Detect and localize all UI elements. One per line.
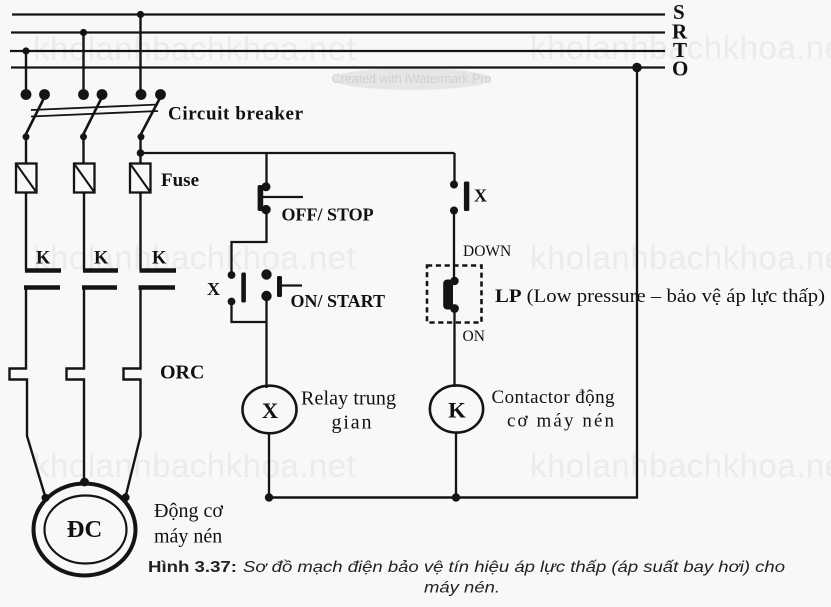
contactor contact K2 <box>82 271 118 288</box>
svg-text:máy nén.: máy nén. <box>424 580 500 597</box>
svg-text:K: K <box>94 249 109 269</box>
wire parallel branch bottom <box>232 302 267 323</box>
contactor contact K3 <box>139 271 177 288</box>
bus S <box>12 13 665 15</box>
relay coil X <box>243 386 297 434</box>
contact X2 (seal-in, left branch) <box>228 271 246 305</box>
label Circuit breaker <box>168 104 304 125</box>
node neutral tap on O <box>632 63 642 73</box>
circuit breaker CB pole2 <box>78 89 107 140</box>
node control feed tap <box>137 149 145 157</box>
motor DC inner circle <box>45 496 127 564</box>
wire neutral drop <box>636 68 638 498</box>
svg-text:ĐC: ĐC <box>67 516 102 543</box>
pressure switch LP dashed box <box>427 266 482 323</box>
label Fuse <box>161 170 199 191</box>
label DOWN <box>463 243 511 260</box>
wire ON to relay X <box>265 296 267 388</box>
node bottom rail K <box>452 493 460 501</box>
label K1 <box>36 249 51 269</box>
label X2 <box>207 279 220 299</box>
wire fuse3 to K3 <box>139 193 141 271</box>
label DC <box>67 516 102 543</box>
label ON <box>463 328 485 345</box>
wire relay X to bottom rail <box>268 433 270 498</box>
pushbutton ON/START <box>261 269 302 301</box>
wire fuse1 to K1 <box>25 193 27 271</box>
svg-text:Sơ đồ mạch điện bảo vệ tín hiệ: Sơ đồ mạch điện bảo vệ tín hiệu áp lực t… <box>243 559 785 576</box>
watermark row2 right <box>530 239 831 276</box>
svg-text:ORC: ORC <box>160 362 204 384</box>
node tap phase1 on T <box>22 47 29 54</box>
node bottom rail X <box>265 493 273 501</box>
svg-text:DOWN: DOWN <box>463 243 511 260</box>
wire OFF branch drop <box>265 153 267 187</box>
svg-text:Fuse: Fuse <box>161 170 199 191</box>
label Relay trung gian <box>301 388 396 434</box>
fuse F3 <box>130 164 151 193</box>
svg-text:Động cơ: Động cơ <box>154 500 223 522</box>
bus O <box>11 66 665 68</box>
svg-text:K: K <box>448 398 466 423</box>
svg-text:Relay trung: Relay trung <box>301 388 396 410</box>
label LP (Low pressure) <box>495 286 825 307</box>
svg-text:máy nén: máy nén <box>154 526 222 548</box>
svg-text:LP (Low pressure – bảo vệ áp l: LP (Low pressure – bảo vệ áp lực thấp) <box>495 286 825 307</box>
svg-text:O: O <box>672 57 688 81</box>
svg-text:ON/ START: ON/ START <box>291 291 386 311</box>
wire pole3 to fuse F3 <box>139 137 141 164</box>
wire bottom rail <box>269 496 638 499</box>
contact X1 (upper right) <box>450 181 469 215</box>
label X1 <box>474 186 487 206</box>
wire contactor K to bottom rail <box>455 433 457 498</box>
label S <box>673 0 685 24</box>
label R <box>672 20 688 44</box>
svg-text:kholanhbachkhoa.net: kholanhbachkhoa.net <box>33 30 356 67</box>
label Contactor dong co may nen <box>492 387 616 432</box>
svg-text:kholanhbachkhoa.net: kholanhbachkhoa.net <box>530 239 831 276</box>
watermark row3 left <box>33 447 356 484</box>
node tap phase2 on R <box>80 29 87 36</box>
svg-text:X: X <box>474 186 487 206</box>
label ORC <box>160 362 204 384</box>
wire phase2 drop <box>82 33 84 93</box>
svg-text:Circuit breaker: Circuit breaker <box>168 104 304 125</box>
wire parallel branch top <box>232 242 267 275</box>
wire phase3 drop <box>139 15 141 93</box>
contactor contact K1 <box>24 271 61 288</box>
wire X branch drop <box>453 153 455 185</box>
label O <box>672 57 688 81</box>
circuit breaker CB pole1 <box>21 89 50 140</box>
wire control feed horizontal <box>141 152 455 154</box>
wire LP to contactor K <box>453 309 455 388</box>
svg-text:kholanhbachkhoa.net: kholanhbachkhoa.net <box>33 447 356 484</box>
svg-text:X: X <box>262 398 278 423</box>
watermark row2 left <box>33 239 356 276</box>
fuse F1 <box>16 164 37 193</box>
fuse F2 <box>74 164 95 193</box>
bus R <box>11 31 665 33</box>
watermark row1 left <box>33 30 356 67</box>
wire OFF to branch point <box>265 210 267 243</box>
node tap phase3 on S <box>137 11 144 18</box>
svg-text:gian: gian <box>332 412 372 434</box>
watermark row1 right <box>530 29 831 66</box>
svg-text:kholanhbachkhoa.net: kholanhbachkhoa.net <box>33 239 356 276</box>
svg-text:OFF/ STOP: OFF/ STOP <box>282 205 374 225</box>
svg-text:Hình 3.37:: Hình 3.37: <box>148 559 237 576</box>
bus T <box>10 50 665 52</box>
wire X1 to LP <box>453 211 455 282</box>
wire pole2 to fuse F2 <box>82 137 84 164</box>
svg-text:kholanhbachkhoa.net: kholanhbachkhoa.net <box>530 447 831 484</box>
circuit breaker CB pole3 <box>136 89 166 140</box>
motor DC outer circle <box>34 484 136 576</box>
wire pole1 to fuse F1 <box>25 137 27 164</box>
svg-text:cơ máy nén: cơ máy nén <box>507 411 615 432</box>
watermark row3 right <box>530 447 831 484</box>
circuit breaker linkage <box>31 105 158 117</box>
svg-text:ON: ON <box>463 328 485 345</box>
wire K1 to ORC1 and overload ORC1 jog <box>10 288 46 498</box>
svg-text:K: K <box>36 249 51 269</box>
wire K2 to ORC2 and overload ORC2 jog <box>67 288 85 482</box>
contactor coil K <box>430 385 483 432</box>
pressure switch LP contact <box>443 277 459 313</box>
caption line 1 <box>148 559 785 576</box>
node motor terminal left <box>42 494 50 502</box>
wire phase1 drop <box>25 51 27 92</box>
wire fuse2 to K2 <box>83 193 85 271</box>
svg-text:Contactor động: Contactor động <box>492 387 616 408</box>
svg-text:X: X <box>207 279 220 299</box>
node motor terminal top <box>80 478 89 487</box>
svg-text:K: K <box>152 249 167 269</box>
label ON/ START <box>291 291 386 311</box>
label Dong co may nen <box>154 500 223 548</box>
caption line 2 <box>424 580 500 597</box>
svg-text:Created with iWatermark Pro: Created with iWatermark Pro <box>332 72 492 86</box>
node motor terminal right <box>122 493 130 501</box>
pushbutton OFF/STOP <box>258 182 303 214</box>
wire K3 to ORC3 and overload ORC3 jog <box>124 288 141 498</box>
label OFF/ STOP <box>282 205 374 225</box>
watermark badge oval <box>332 68 492 90</box>
label K2 <box>94 249 109 269</box>
label T <box>673 38 687 62</box>
label K3 <box>152 249 167 269</box>
